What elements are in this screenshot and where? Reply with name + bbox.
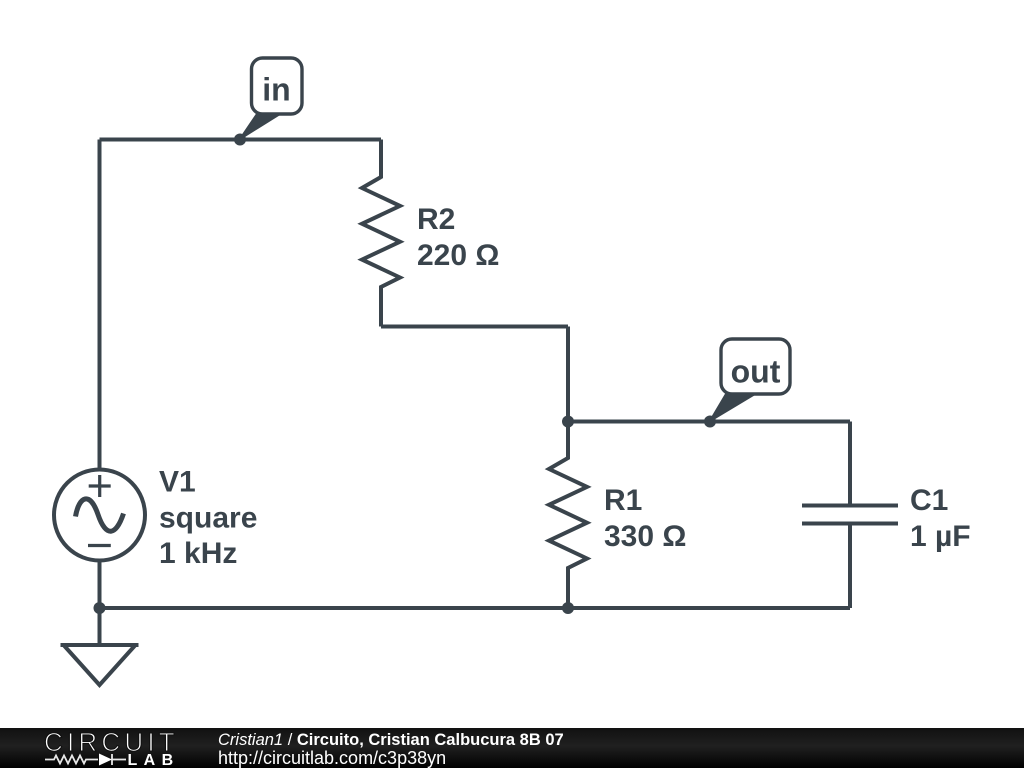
node: R1 top junction dot	[562, 416, 574, 428]
voltage source V1	[54, 470, 145, 561]
footer bar	[0, 728, 1024, 768]
capacitor C1	[802, 422, 898, 609]
flag out	[710, 339, 790, 421]
svg-text:1 µF: 1 µF	[910, 520, 971, 553]
svg-text:R1: R1	[604, 484, 642, 517]
svg-text:330 Ω: 330 Ω	[604, 520, 686, 553]
wire: left vertical from top wire to V1	[98, 140, 102, 471]
node: ground junction dot	[94, 602, 106, 614]
ground	[61, 608, 139, 685]
svg-text:C1: C1	[910, 484, 948, 517]
wire: vertical down to out node	[566, 327, 570, 422]
wire: top horizontal (in net)	[100, 138, 382, 142]
node: out junction dot	[704, 416, 716, 428]
svg-text:1 kHz: 1 kHz	[159, 537, 237, 570]
wire: out net horizontal to C1	[568, 420, 850, 424]
svg-text:V1: V1	[159, 466, 196, 499]
wire: V1 bottom to ground node	[98, 559, 102, 608]
svg-text:Cristian1 / Circuito, Cristian: Cristian1 / Circuito, Cristian Calbucura…	[218, 731, 564, 749]
svg-text:square: square	[159, 502, 257, 535]
svg-text:220 Ω: 220 Ω	[417, 239, 499, 272]
wire: R2 to R1 horizontal segment	[381, 325, 568, 329]
svg-text:out: out	[731, 354, 781, 390]
svg-text:http://circuitlab.com/c3p38yn: http://circuitlab.com/c3p38yn	[218, 748, 446, 768]
node: R1 bottom junction dot	[562, 602, 574, 614]
logo wire-resistor-diode glyph	[45, 754, 126, 765]
node: in junction dot	[234, 134, 246, 146]
flag in	[240, 58, 302, 139]
svg-text:LAB: LAB	[128, 752, 180, 768]
resistor R1	[549, 422, 587, 609]
resistor R2	[362, 140, 400, 327]
wire: bottom horizontal (ground net)	[100, 606, 851, 610]
svg-text:R2: R2	[417, 203, 455, 236]
svg-text:in: in	[262, 72, 290, 108]
